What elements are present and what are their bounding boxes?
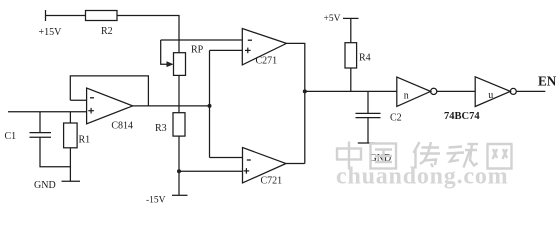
- watermark char guo: [371, 144, 397, 169]
- svg-text:C2: C2: [390, 113, 402, 124]
- wire C2 bottom to GND: [367, 118, 369, 143]
- wire C721 output: [286, 163, 305, 165]
- ground terminal left: [62, 180, 81, 182]
- watermark char chuan: [414, 142, 441, 169]
- svg-text:EN: EN: [538, 74, 557, 89]
- C721 minus pin: [247, 159, 251, 161]
- svg-text:RP: RP: [191, 45, 204, 56]
- C271 minus pin: [248, 39, 252, 41]
- op-amp C814: [87, 88, 133, 124]
- inverter gate n: [397, 77, 431, 106]
- watermark chinese characters: [337, 142, 513, 170]
- svg-text:C1: C1: [5, 131, 17, 142]
- svg-text:R1: R1: [79, 135, 91, 146]
- op-amp C721: [243, 148, 287, 183]
- wire R1 bottom to GND: [69, 148, 71, 182]
- junction C814 output: [208, 104, 212, 108]
- svg-text:-15V: -15V: [146, 196, 166, 206]
- wire input to C1: [39, 112, 41, 133]
- wire R4 bottom to bus: [350, 68, 352, 91]
- ground terminal right: [358, 142, 375, 144]
- wire EN output: [516, 90, 545, 92]
- wire +15V to R2: [46, 15, 86, 17]
- svg-text:C721: C721: [261, 176, 283, 187]
- wire to C271 non-inverting input: [210, 49, 243, 51]
- svg-text:R4: R4: [359, 53, 371, 64]
- RP wiper arrowhead: [167, 61, 174, 67]
- wire R3 bottom to -15V: [178, 136, 180, 195]
- svg-text:R2: R2: [101, 26, 113, 37]
- svg-text:C271: C271: [256, 56, 278, 67]
- C271 plus pin: [245, 48, 251, 54]
- svg-text:R3: R3: [155, 123, 167, 134]
- watermark char dong: [447, 144, 479, 168]
- junction output node: [303, 89, 307, 93]
- wire C271 output: [287, 43, 305, 163]
- wire RP wiper: [161, 40, 168, 64]
- svg-text:n: n: [404, 91, 409, 102]
- resistor R1: [64, 123, 78, 148]
- feedback wire around C814: [70, 76, 148, 106]
- wire C1 bottom: [40, 137, 70, 167]
- C721 plus pin: [244, 168, 250, 174]
- wire bus to C2: [367, 91, 369, 113]
- watermark char zhong: [337, 142, 361, 170]
- wire to C721 inverting input: [210, 157, 243, 159]
- svg-text:u: u: [488, 90, 493, 101]
- wire C814 inverting input: [70, 99, 86, 101]
- wire input to R1: [69, 112, 71, 123]
- svg-text:GND: GND: [34, 180, 56, 191]
- watermark char wang: [487, 144, 513, 169]
- svg-text:C814: C814: [111, 121, 133, 132]
- wire gate n to gate u: [437, 90, 476, 92]
- wire bus between op-amp inputs: [209, 50, 211, 157]
- svg-text:chuandong.com: chuandong.com: [336, 164, 508, 190]
- wire node to C271 inverting input: [161, 39, 243, 41]
- svg-text:+15V: +15V: [39, 27, 63, 38]
- inverter gate u: [475, 77, 510, 107]
- wire R2 to top-right corner: [117, 16, 179, 53]
- capacitor C2: [356, 112, 381, 114]
- svg-text:74BC74: 74BC74: [444, 111, 480, 122]
- wire to C721 non-inverting input: [179, 170, 243, 172]
- potentiometer RP: [174, 53, 186, 76]
- wire RP bottom to R3 top: [178, 75, 180, 112]
- C814 plus pin: [88, 108, 94, 114]
- resistor R3: [173, 113, 185, 136]
- junction node to C721 +: [177, 169, 181, 173]
- +5V terminal: [343, 17, 359, 19]
- op-amp C271: [242, 29, 286, 65]
- +15V terminal: [45, 10, 47, 21]
- resistor R4: [345, 43, 357, 68]
- -15V terminal: [172, 194, 188, 196]
- input wire: [8, 111, 87, 113]
- resistor R2: [86, 11, 118, 21]
- main output wire: [305, 90, 397, 92]
- svg-text:+5V: +5V: [324, 14, 341, 24]
- wire C814 output: [133, 105, 210, 107]
- capacitor C1: [30, 132, 52, 134]
- wire +5V to R4: [350, 18, 352, 42]
- C814 minus pin: [90, 97, 94, 99]
